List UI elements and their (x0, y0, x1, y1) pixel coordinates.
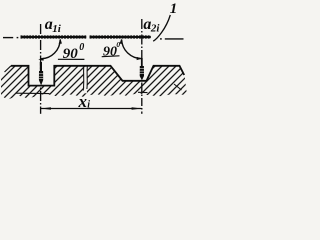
measuring line bar segment B (hatched ribbon) (90, 36, 151, 38)
probe pin left (filled pointer in notch 1) (39, 62, 44, 85)
right break edge (174, 84, 182, 90)
axis line 1 (left vertical dash-dot) (40, 24, 42, 114)
svg-text:0: 0 (116, 40, 120, 49)
svg-text:2i: 2i (150, 22, 161, 34)
section outline (part profile with two notches) (11, 66, 184, 86)
probe pin right (filled pointer in notch 2) (140, 58, 145, 80)
left 90-degree arc with arrowheads (38, 39, 62, 61)
bottom break line right segment (138, 91, 148, 93)
measuring line bar segment A (hatched ribbon) (21, 36, 87, 38)
centerline lead-in left (3, 37, 18, 39)
svg-text:90: 90 (103, 44, 117, 59)
label 90 degrees left (58, 42, 85, 62)
svg-text:i: i (87, 100, 90, 111)
break line left edge (82, 66, 85, 91)
label a1i (45, 16, 62, 35)
right 90-degree arc with arrowheads (120, 39, 143, 61)
label xi (78, 92, 91, 111)
hatching of sectioned material (0, 0, 284, 119)
svg-text:1i: 1i (52, 23, 62, 35)
break line right edge (86, 66, 89, 89)
axis line 2 (right vertical dash-dot) (141, 19, 143, 114)
svg-text:x: x (78, 92, 88, 111)
bottom break line left segment (16, 92, 50, 94)
dimension line xi (41, 107, 142, 110)
leader line to label 1 (153, 15, 170, 41)
svg-text:1: 1 (170, 1, 178, 17)
centerline continuation right (160, 38, 184, 40)
break gap in section (white strip) (84, 67, 87, 94)
left break edge (5, 66, 12, 72)
svg-text:0: 0 (79, 42, 84, 53)
label a2i (143, 16, 160, 35)
label 90 degrees right (102, 40, 121, 59)
